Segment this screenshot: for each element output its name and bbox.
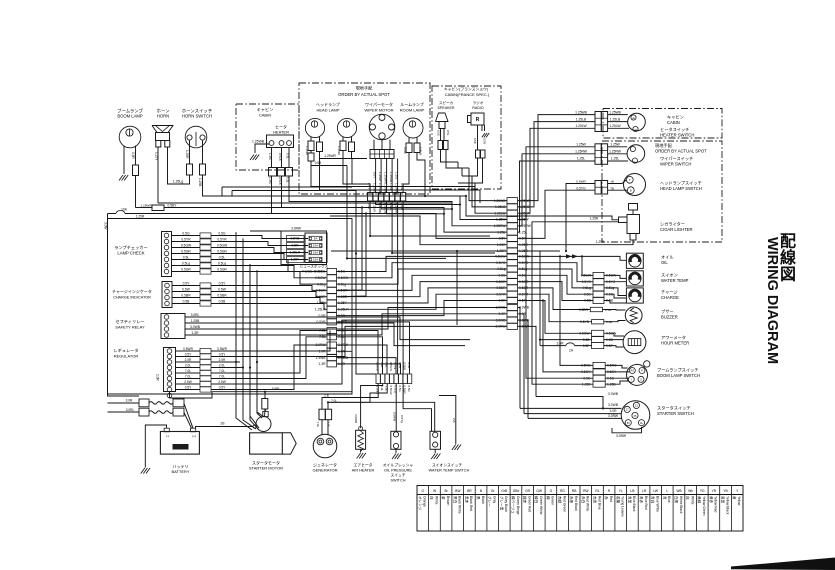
left bus down <box>108 214 140 397</box>
svg-text:3.0RL: 3.0RL <box>272 387 281 391</box>
wire <box>321 420 323 435</box>
svg-text:7.0L: 7.0L <box>185 375 191 379</box>
wire <box>141 207 152 209</box>
wire <box>509 486 511 532</box>
svg-text:キャビン(フランスショウ): キャビン(フランスショウ) <box>444 87 489 92</box>
wiper switch connector <box>595 144 601 165</box>
svg-text:3.0RL: 3.0RL <box>191 313 200 317</box>
svg-text:Black: Black <box>481 496 485 504</box>
wire <box>608 189 628 191</box>
svg-text:エアヒータ: エアヒータ <box>354 463 373 468</box>
wire junction <box>565 250 567 252</box>
svg-text:OIL: OIL <box>661 260 668 265</box>
svg-text:スイオン: スイオン <box>661 272 678 277</box>
svg-text:Blue Black: Blue Black <box>632 496 636 512</box>
starter feed 3.0RW <box>528 417 622 419</box>
svg-text:0.5G: 0.5G <box>398 362 402 369</box>
wire <box>595 124 608 126</box>
wire <box>604 333 624 336</box>
svg-text:0.5Yg: 0.5Yg <box>400 415 404 423</box>
wire <box>250 264 259 430</box>
heater switch connector <box>595 112 601 132</box>
svg-text:3.0WB: 3.0WB <box>190 325 201 329</box>
wire <box>608 160 628 162</box>
wire <box>574 345 591 347</box>
wire <box>331 250 507 252</box>
wire junction <box>242 366 244 368</box>
wire <box>337 358 397 374</box>
wire <box>176 361 201 363</box>
svg-text:1.25Y: 1.25Y <box>317 301 326 305</box>
svg-text:1.25R: 1.25R <box>136 215 145 219</box>
svg-text:WIPER SWITCH: WIPER SWITCH <box>660 162 691 167</box>
svg-text:Green Beige: Green Beige <box>516 496 520 515</box>
wire <box>380 159 382 193</box>
wire junction <box>602 407 604 409</box>
svg-text:0.5GR: 0.5GR <box>316 289 326 293</box>
svg-text:0.5GW: 0.5GW <box>389 386 393 395</box>
wire <box>337 208 363 291</box>
wire <box>458 182 475 184</box>
wire junction <box>465 195 467 197</box>
wire <box>240 345 327 390</box>
svg-text:0.5W: 0.5W <box>218 288 227 292</box>
wire <box>346 121 348 127</box>
svg-text:Gray: Gray <box>493 496 497 503</box>
svg-text:HORN SWITCH: HORN SWITCH <box>182 114 212 119</box>
svg-text:0.5YB: 0.5YB <box>291 237 301 241</box>
wire <box>221 187 223 196</box>
wire <box>184 404 193 429</box>
wire <box>337 364 401 374</box>
connector heater 1 <box>269 168 277 177</box>
wire <box>403 153 409 193</box>
svg-text:1.25L: 1.25L <box>268 153 272 161</box>
svg-text:2B: 2B <box>221 422 225 426</box>
wire <box>518 128 596 213</box>
wire <box>612 427 642 433</box>
svg-text:STARTER SWITCH: STARTER SWITCH <box>657 411 694 416</box>
svg-text:3.0W: 3.0W <box>104 222 108 229</box>
svg-text:3.0WB: 3.0WB <box>608 403 619 407</box>
svg-text:2.0L: 2.0L <box>219 364 225 368</box>
wire <box>604 294 626 298</box>
svg-text:0.5GR: 0.5GR <box>181 250 191 254</box>
wire <box>719 486 721 532</box>
wire <box>672 486 674 532</box>
wire <box>595 186 608 188</box>
wire <box>608 127 629 129</box>
svg-text:0.5YR: 0.5YR <box>181 238 191 242</box>
svg-text:0.5GW: 0.5GW <box>315 276 326 280</box>
wire <box>195 132 197 146</box>
water temp switch feed <box>403 384 431 432</box>
svg-text:R: R <box>476 117 480 123</box>
svg-text:ヒューズボックス: ヒューズボックス <box>300 264 329 269</box>
svg-text:7.0L: 7.0L <box>185 369 191 373</box>
svg-text:(-): (-) <box>166 434 169 438</box>
wire <box>337 294 508 309</box>
svg-text:0.5Y: 0.5Y <box>499 237 507 241</box>
svg-text:ヘッドランプ: ヘッドランプ <box>316 101 340 107</box>
svg-text:0.5Y: 0.5Y <box>183 282 191 286</box>
wire <box>458 158 483 183</box>
svg-text:RB: RB <box>572 489 577 493</box>
wire <box>518 269 594 288</box>
wire <box>518 308 521 409</box>
svg-text:1.25L: 1.25L <box>497 230 505 234</box>
wire junction <box>235 361 237 363</box>
svg-text:Grey Black: Grey Black <box>504 496 508 512</box>
svg-text:1.25R: 1.25R <box>590 217 599 221</box>
svg-text:7.0L: 7.0L <box>316 422 320 428</box>
svg-text:CHARGE: CHARGE <box>661 295 679 300</box>
ground radio <box>482 133 489 137</box>
wire junction <box>542 299 544 301</box>
svg-text:0.5Y: 0.5Y <box>185 386 192 390</box>
wire <box>211 298 327 304</box>
svg-text:7.0L: 7.0L <box>219 369 225 373</box>
battery <box>160 432 199 455</box>
fusible link <box>139 399 149 407</box>
wire <box>360 449 362 452</box>
wire <box>236 361 240 363</box>
svg-text:1.25WB: 1.25WB <box>609 110 622 114</box>
svg-text:0.5BR: 0.5BR <box>579 308 589 312</box>
legend table <box>417 486 743 532</box>
wire <box>518 154 596 226</box>
wire <box>604 346 624 347</box>
wire <box>630 339 632 346</box>
svg-text:5A: 5A <box>314 237 318 241</box>
wire <box>337 301 508 316</box>
svg-text:G: G <box>550 489 553 493</box>
svg-text:0.5GW: 0.5GW <box>217 244 228 248</box>
cabin france spec box <box>432 86 501 189</box>
wire <box>337 337 383 374</box>
wire <box>310 151 312 154</box>
wire <box>391 159 393 193</box>
wire <box>327 420 329 435</box>
connector boom lamp <box>133 165 139 176</box>
wire <box>264 409 266 411</box>
buzzer <box>625 307 642 324</box>
order by actual spot box <box>299 83 430 194</box>
wire <box>257 270 262 418</box>
wire <box>608 153 628 155</box>
svg-text:7.0L: 7.0L <box>380 386 384 392</box>
svg-text:2.0R: 2.0R <box>156 374 160 381</box>
wire <box>604 288 626 296</box>
wire <box>211 266 327 278</box>
svg-text:黄: 黄 <box>732 496 737 500</box>
svg-text:Yellow Black: Yellow Black <box>725 496 729 515</box>
svg-text:L: L <box>666 489 668 493</box>
wire <box>185 334 215 336</box>
svg-text:2.B: 2.B <box>452 418 456 423</box>
wire <box>235 251 237 396</box>
wire <box>456 251 458 325</box>
wire <box>172 297 200 299</box>
wire <box>125 213 436 215</box>
wire <box>604 275 626 278</box>
wire <box>579 486 581 532</box>
fuse box outer <box>281 231 327 265</box>
wire <box>383 150 385 159</box>
wire heater2 to bus <box>282 176 508 232</box>
svg-text:15A: 15A <box>313 244 318 248</box>
svg-text:緑: 緑 <box>546 496 551 500</box>
wire <box>518 263 594 282</box>
svg-text:3.0WB: 3.0WB <box>519 306 530 310</box>
svg-text:0.5GR: 0.5GR <box>181 268 191 272</box>
wire <box>242 238 244 367</box>
svg-text:0.5R: 0.5R <box>319 314 327 318</box>
svg-text:0.5GW: 0.5GW <box>579 332 590 336</box>
svg-text:1.9WB: 1.9WB <box>316 356 327 360</box>
svg-text:RW: RW <box>583 489 589 493</box>
central connector strip <box>327 269 337 275</box>
svg-text:7.0L: 7.0L <box>319 335 326 339</box>
svg-text:1.25LW: 1.25LW <box>609 124 621 128</box>
boom lamp <box>119 126 141 148</box>
wire <box>189 175 191 184</box>
wire <box>242 258 244 410</box>
svg-text:AIR HEATER: AIR HEATER <box>352 469 375 473</box>
wire junction <box>424 195 426 197</box>
svg-text:Red: Red <box>609 496 613 502</box>
svg-text:HB: HB <box>632 118 636 120</box>
svg-text:0.5R: 0.5R <box>131 152 135 159</box>
svg-text:Red White: Red White <box>586 496 590 512</box>
wire <box>532 222 593 384</box>
svg-text:Blue Red: Blue Red <box>644 496 648 510</box>
svg-text:1.25W: 1.25W <box>610 143 620 147</box>
wire <box>484 125 486 131</box>
svg-text:0.5YB: 0.5YB <box>317 320 327 324</box>
svg-text:青赤: 青赤 <box>639 496 644 504</box>
wire <box>468 168 470 198</box>
svg-text:YL: YL <box>619 489 623 493</box>
svg-text:0.5GW: 0.5GW <box>389 362 393 371</box>
wire <box>231 191 233 197</box>
svg-text:3.0RL: 3.0RL <box>126 408 135 412</box>
bottom connector row <box>376 374 380 384</box>
wire <box>236 396 252 430</box>
link2 feed <box>108 411 140 413</box>
svg-text:0.5G: 0.5G <box>318 270 326 274</box>
wire heater3 to bus <box>289 176 507 226</box>
svg-text:1.25L: 1.25L <box>577 157 585 161</box>
horn funnel <box>152 126 173 133</box>
wire <box>211 356 240 358</box>
svg-text:Green White: Green White <box>539 496 543 515</box>
svg-text:黒白: 黒白 <box>453 496 458 504</box>
connector starter solenoid <box>262 399 268 410</box>
wire <box>281 148 283 168</box>
svg-text:WATER TEMP SWITCH: WATER TEMP SWITCH <box>429 469 470 473</box>
wire <box>518 320 529 418</box>
wire <box>457 162 459 168</box>
scan artifact wedge <box>731 558 835 570</box>
wire <box>235 232 237 362</box>
wire <box>387 201 444 214</box>
wire <box>402 201 404 374</box>
wire <box>539 251 541 346</box>
wire <box>211 350 240 352</box>
wire <box>461 168 463 176</box>
wire <box>361 384 383 429</box>
svg-text:チャージインジケータ: チャージインジケータ <box>112 288 152 294</box>
wire <box>215 323 465 346</box>
wire <box>370 201 490 236</box>
wire <box>614 486 616 532</box>
svg-text:0.5WR: 0.5WR <box>217 347 227 351</box>
wire <box>443 129 445 141</box>
wire <box>649 486 651 532</box>
svg-text:Wh: Wh <box>688 489 693 493</box>
wire <box>351 152 353 159</box>
headlamp1 link <box>311 161 347 166</box>
wire <box>408 138 410 144</box>
svg-text:+B: +B <box>610 180 614 184</box>
wire junction <box>559 255 561 257</box>
wire <box>374 150 376 159</box>
svg-text:青: 青 <box>662 496 667 500</box>
wire <box>211 272 327 285</box>
svg-text:SWITCH: SWITCH <box>391 479 406 483</box>
svg-text:黒赤: 黒赤 <box>464 496 469 504</box>
wire <box>518 256 627 260</box>
wire <box>591 486 593 532</box>
connector heater 2 <box>278 168 285 177</box>
link1 feed <box>108 402 140 404</box>
svg-text:WB: WB <box>676 489 682 493</box>
wire <box>605 381 628 384</box>
svg-text:3.0RW: 3.0RW <box>315 343 326 347</box>
wire <box>605 365 627 368</box>
boom lamp switch <box>627 364 648 385</box>
wire <box>211 242 308 246</box>
svg-text:黄黒: 黄黒 <box>721 496 726 504</box>
wire <box>342 137 344 142</box>
wire <box>320 159 481 204</box>
wire <box>172 265 201 267</box>
ground <box>431 454 440 460</box>
wire junction <box>256 361 258 363</box>
svg-text:若葉: 若葉 <box>616 496 621 504</box>
wire <box>556 486 558 532</box>
svg-text:1.25R: 1.25R <box>185 150 189 159</box>
svg-text:BR: BR <box>467 489 472 493</box>
head lamp switch feed <box>566 184 595 252</box>
wire <box>608 114 628 116</box>
wire boom lamp to ground <box>123 146 125 175</box>
svg-text:チャージ: チャージ <box>661 289 678 294</box>
lamp check block <box>162 232 172 277</box>
wire <box>337 214 367 297</box>
wire <box>486 486 488 532</box>
wire <box>604 281 626 283</box>
wire <box>215 308 507 330</box>
svg-text:青黒: 青黒 <box>627 496 632 504</box>
svg-text:BOOM LAMP SWITCH: BOOM LAMP SWITCH <box>657 373 700 378</box>
wire <box>518 326 537 396</box>
wire horn switch left <box>189 140 191 164</box>
svg-text:1.25W: 1.25W <box>337 146 341 155</box>
svg-text:1.25WR: 1.25WR <box>383 172 387 184</box>
svg-text:1.25Lg: 1.25Lg <box>173 180 183 184</box>
svg-text:3.0WB: 3.0WB <box>608 392 619 396</box>
wire <box>540 345 566 347</box>
wire <box>211 378 240 380</box>
wire <box>518 301 592 334</box>
svg-text:Blue White: Blue White <box>656 496 660 512</box>
svg-text:0.5R: 0.5R <box>407 386 411 392</box>
wire <box>172 271 201 273</box>
svg-text:1.25LW: 1.25LW <box>384 183 388 193</box>
wire <box>386 159 388 193</box>
svg-text:1.0WB: 1.0WB <box>375 362 379 371</box>
svg-text:3.0RW: 3.0RW <box>291 227 301 231</box>
wire junction <box>391 252 393 254</box>
wire <box>518 250 561 252</box>
wire <box>211 286 327 291</box>
svg-text:GBe: GBe <box>513 489 520 493</box>
hour meter <box>623 331 646 354</box>
svg-text:青白: 青白 <box>651 496 656 504</box>
wire heater to ground <box>255 144 269 153</box>
wire <box>477 125 479 150</box>
wire <box>518 294 592 322</box>
svg-text:ラジオ: ラジオ <box>473 100 484 105</box>
svg-text:LR: LR <box>642 489 647 493</box>
svg-text:0.5B: 0.5B <box>315 161 322 165</box>
svg-text:オイル: オイル <box>661 255 674 260</box>
regulator block <box>164 348 176 392</box>
svg-text:Yellow Green: Yellow Green <box>702 496 706 516</box>
wire junction <box>539 339 541 341</box>
svg-text:0.5Y: 0.5Y <box>372 172 376 178</box>
svg-text:0.5Y: 0.5Y <box>219 386 226 390</box>
wire <box>311 166 475 201</box>
generator body <box>313 434 337 458</box>
svg-text:1.25RW: 1.25RW <box>494 224 507 228</box>
svg-text:1.25LR: 1.25LR <box>315 308 326 312</box>
ground <box>357 453 366 459</box>
svg-text:CHARGE INDICATOR: CHARGE INDICATOR <box>113 296 151 300</box>
svg-text:ORDER BY ACTUAL SPOT: ORDER BY ACTUAL SPOT <box>655 149 707 154</box>
svg-text:1.25WR: 1.25WR <box>378 183 382 195</box>
svg-text:0.5L: 0.5L <box>286 153 290 159</box>
starter body <box>250 433 283 454</box>
wire <box>156 126 169 132</box>
svg-text:1.25Y: 1.25Y <box>291 258 300 262</box>
svg-text:0.5BY: 0.5BY <box>168 204 178 208</box>
wire <box>337 275 508 290</box>
svg-text:0.5WR: 0.5WR <box>576 180 586 184</box>
wire <box>412 121 414 127</box>
wire <box>232 190 356 192</box>
svg-text:0.5YR: 0.5YR <box>217 238 227 242</box>
wire <box>436 113 449 122</box>
cigar lighter feed <box>550 221 619 223</box>
svg-text:2.0W: 2.0W <box>218 380 225 384</box>
wire <box>540 339 592 341</box>
svg-text:0.5G: 0.5G <box>437 130 441 136</box>
wire <box>518 115 596 201</box>
wire <box>602 486 604 532</box>
